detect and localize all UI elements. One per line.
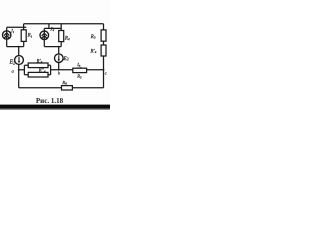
svg-text:J1: J1	[11, 29, 15, 34]
svg-text:Рис. 1.18: Рис. 1.18	[36, 97, 64, 105]
svg-text:R′4: R′4	[36, 59, 43, 64]
svg-text:c: c	[105, 71, 107, 76]
svg-text:E3: E3	[62, 56, 68, 62]
svg-text:I5: I5	[76, 62, 81, 68]
svg-text:R″4: R″4	[38, 69, 46, 74]
svg-text:R′4: R′4	[90, 49, 97, 54]
svg-text:R2: R2	[64, 36, 70, 41]
svg-text:a: a	[12, 68, 15, 73]
svg-text:J2: J2	[50, 27, 54, 32]
svg-text:b: b	[58, 71, 60, 76]
svg-text:R3: R3	[90, 35, 96, 40]
svg-text:R5: R5	[76, 74, 82, 80]
svg-text:R6: R6	[61, 80, 67, 86]
svg-text:R1: R1	[27, 34, 33, 39]
